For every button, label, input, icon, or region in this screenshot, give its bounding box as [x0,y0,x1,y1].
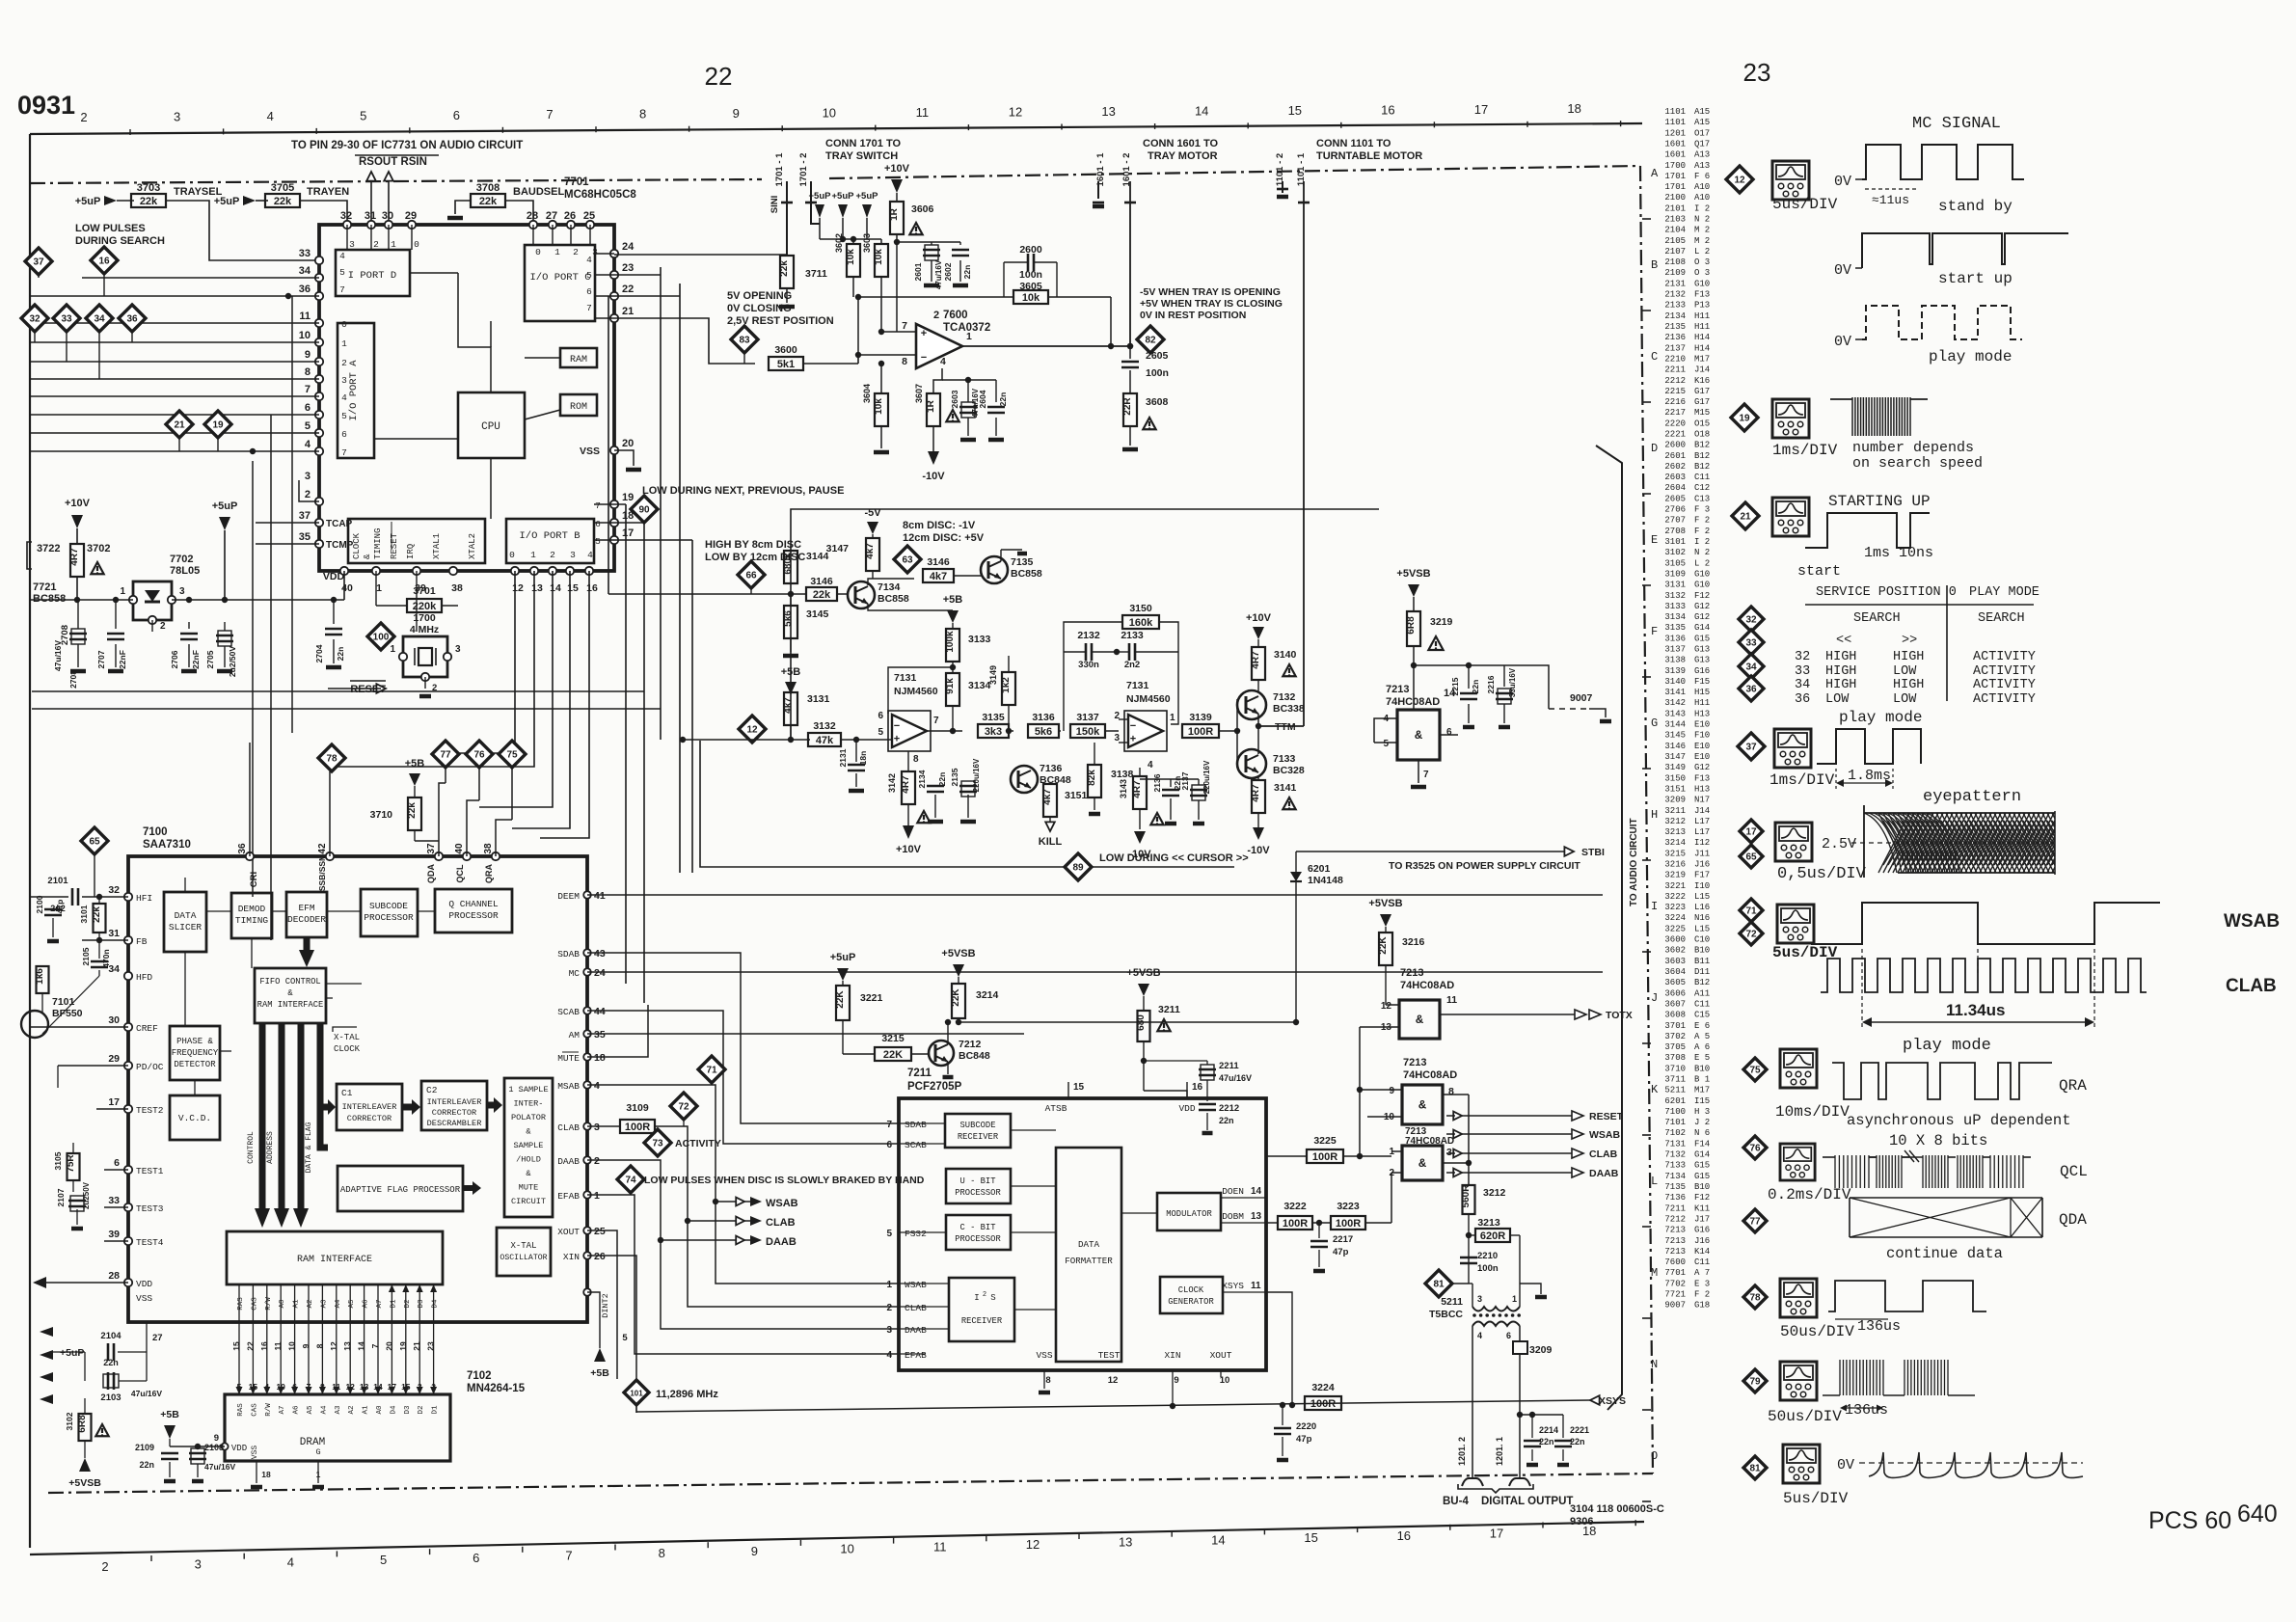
resistor 1k6 [37,966,49,993]
svg-text:0.2ms/DIV: 0.2ms/DIV [1768,1186,1851,1203]
svg-text:L15: L15 [1694,892,1710,902]
diamond 66 [738,561,765,588]
svg-text:+5B: +5B [405,758,425,770]
block 1 SAMPLE INTERPOLATOR [504,1078,553,1217]
svg-text:5: 5 [305,420,311,432]
svg-text:HIGH: HIGH [1825,678,1856,692]
pins 33 34 36 left [315,257,323,264]
svg-text:2214: 2214 [1539,1425,1558,1435]
svg-text:3150: 3150 [1664,773,1686,783]
svg-text:E 5: E 5 [1694,1053,1710,1063]
svg-text:BF550: BF550 [52,1008,83,1019]
svg-text:CLAB: CLAB [557,1122,580,1133]
svg-text:DIGITAL OUTPUT: DIGITAL OUTPUT [1481,1496,1573,1507]
svg-text:6: 6 [886,1140,892,1150]
svg-text:M15: M15 [1694,408,1710,418]
svg-text:78: 78 [1749,1293,1761,1304]
svg-text:7213: 7213 [1664,1226,1686,1235]
svg-text:3105: 3105 [53,1151,63,1170]
svg-text:N17: N17 [1694,796,1710,805]
svg-text:7: 7 [546,107,553,122]
svg-text:33: 33 [1795,664,1810,679]
svg-text:PLAY MODE: PLAY MODE [1969,585,2039,600]
svg-text:4: 4 [587,550,593,560]
svg-text:HIGH BY 8cm DISC: HIGH BY 8cm DISC [705,539,801,551]
svg-text:2104: 2104 [100,1331,122,1341]
svg-text:2: 2 [101,1559,108,1574]
svg-text:3131: 3131 [1664,581,1686,590]
svg-text:12: 12 [1734,176,1745,186]
svg-text:91k: 91k [945,678,956,694]
svg-text:CLAB: CLAB [905,1303,927,1313]
svg-text:71: 71 [706,1066,717,1076]
block Q CHANNEL PROCESSOR [435,889,512,933]
svg-text:3703: 3703 [137,182,160,194]
capacitor 2104 22n [107,1343,110,1361]
svg-text:ATSB: ATSB [1045,1103,1067,1114]
resistor 3209 [1513,1341,1527,1354]
svg-text:22n: 22n [1570,1437,1585,1446]
diamond 12 servo [739,716,766,743]
svg-text:3214: 3214 [1664,838,1686,848]
svg-text:CLOCK: CLOCK [1178,1285,1204,1295]
svg-text:RAM INTERFACE: RAM INTERFACE [297,1255,372,1265]
svg-text:LOW: LOW [1893,692,1917,707]
svg-text:M 2: M 2 [1694,226,1710,235]
svg-text:I PORT D: I PORT D [348,270,396,282]
wire bus verticals [608,296,609,594]
svg-text:+10V: +10V [896,844,922,855]
svg-text:2: 2 [933,310,939,321]
wire XOUT [587,1230,617,1379]
svg-text:+5V WHEN TRAY IS CLOSING: +5V WHEN TRAY IS CLOSING [1140,298,1283,310]
svg-text:4k7: 4k7 [1042,789,1053,805]
svg-text:2137: 2137 [1180,771,1190,790]
svg-text:3104 118 00600S-C: 3104 118 00600S-C [1570,1503,1664,1515]
arrow DAAB mid [661,1239,750,1241]
resistor 3607 1R [927,393,940,426]
svg-text:22K: 22K [1378,936,1389,955]
svg-text:STBI: STBI [1581,847,1605,858]
svg-text:18: 18 [1567,101,1580,116]
svg-text:TIMING: TIMING [373,528,383,559]
svg-text:3711: 3711 [805,268,827,280]
svg-text:10: 10 [840,1542,853,1556]
wire AM [587,1033,1024,1035]
svg-text:3135: 3135 [1664,623,1686,633]
svg-text:34: 34 [299,265,311,277]
svg-text:BC848: BC848 [959,1050,990,1062]
svg-text:2109: 2109 [135,1443,154,1452]
svg-text:73: 73 [652,1139,663,1149]
svg-text:7: 7 [1423,770,1429,780]
svg-text:A5: A5 [307,1405,314,1415]
svg-text:3: 3 [341,375,347,386]
svg-text:A1: A1 [293,1299,301,1309]
diamond 32 [21,305,48,332]
svg-text:/HOLD: /HOLD [516,1155,541,1165]
svg-text:2105: 2105 [81,947,91,965]
memory DRAM block [225,1394,450,1461]
svg-text:BU-4: BU-4 [1443,1496,1469,1507]
svg-text:47u/16V: 47u/16V [934,259,943,289]
resistor 3131 4k7 [784,692,797,725]
svg-text:2101: 2101 [47,876,68,886]
svg-text:3722: 3722 [37,543,60,554]
svg-text:8cm DISC: -1V: 8cm DISC: -1V [903,520,976,531]
svg-text:3: 3 [594,1122,600,1133]
svg-text:23: 23 [426,1341,436,1351]
svg-text:10 X 8 bits: 10 X 8 bits [1889,1132,1987,1149]
svg-text:A7: A7 [279,1405,286,1414]
capacitor 2132 330n [1085,643,1088,661]
svg-text:MSAB: MSAB [557,1081,580,1092]
capacitor 2135 220u/16V [959,785,977,788]
svg-text:2108: 2108 [1664,257,1686,267]
svg-text:10: 10 [823,106,836,121]
svg-text:X-TAL: X-TAL [510,1241,536,1251]
svg-text:7600: 7600 [943,310,968,321]
svg-text:4k7: 4k7 [930,571,947,582]
svg-text:1700: 1700 [1664,161,1686,171]
svg-text:3139: 3139 [1664,666,1686,676]
diode 6201 1N4148 [1290,872,1302,881]
svg-text:79: 79 [1749,1377,1761,1388]
svg-text:C11: C11 [1694,473,1710,482]
svg-text:B12: B12 [1694,441,1710,450]
waveform stand by [1862,145,2024,179]
svg-text:G10: G10 [1694,581,1710,590]
svg-text:7212: 7212 [1664,1215,1686,1225]
diamond 33 [53,305,80,332]
svg-text:29: 29 [405,210,417,222]
svg-text:7101: 7101 [1664,1118,1686,1127]
svg-text:32: 32 [340,210,352,222]
svg-text:0: 0 [535,247,541,257]
svg-text:37: 37 [33,257,44,268]
svg-text:21: 21 [1740,512,1751,523]
svg-text:11: 11 [299,311,311,322]
svg-text:2107: 2107 [1664,247,1686,257]
svg-text:7134: 7134 [1664,1172,1686,1181]
svg-text:FORMATTER: FORMATTER [1065,1256,1113,1266]
svg-text:22k: 22k [407,802,418,819]
svg-text:330n: 330n [1078,660,1099,670]
svg-text:3600: 3600 [1664,935,1686,945]
servo area border [791,509,1379,741]
block I/O PORT A [338,323,374,458]
svg-text:<<: << [1836,634,1851,648]
svg-text:SEARCH: SEARCH [1853,611,1901,626]
svg-text:2: 2 [341,358,347,368]
svg-text:TOTX: TOTX [1606,1010,1633,1021]
svg-text:2601: 2601 [913,262,923,281]
wire port A columns down [252,461,254,897]
svg-text:1ms 10ns: 1ms 10ns [1864,545,1933,561]
svg-text:7213: 7213 [1403,1057,1426,1068]
wire TEST4 stub [104,1240,128,1242]
arrow CLAB mid [688,1220,750,1222]
svg-text:38: 38 [483,843,494,854]
svg-text:WSAB: WSAB [766,1198,798,1209]
svg-text:7: 7 [305,384,311,395]
svg-text:5: 5 [1383,739,1389,749]
svg-text:J: J [1651,991,1658,1005]
svg-text:6: 6 [595,519,601,529]
svg-text:36: 36 [1795,692,1810,707]
wire emitters to 1101-1 [1257,714,1259,726]
svg-text:4R7: 4R7 [1132,780,1143,798]
svg-text:A10: A10 [1694,193,1710,203]
svg-text:3212: 3212 [1664,817,1686,826]
svg-text:22R: 22R [1122,397,1133,416]
wire TRAYSEL to pin 33 [166,201,319,260]
svg-text:1201. 1: 1201. 1 [1495,1437,1504,1466]
svg-text:10k: 10k [1022,292,1040,304]
svg-text:I/O PORT B: I/O PORT B [519,530,580,542]
svg-text:22n: 22n [139,1460,154,1470]
svg-text:CONTROL: CONTROL [247,1131,256,1164]
svg-text:7: 7 [886,1120,892,1130]
svg-text:78: 78 [326,754,338,765]
svg-text:2216: 2216 [1664,397,1686,407]
left supply arrows [40,1327,53,1337]
svg-text:≈11us: ≈11us [1872,193,1909,207]
svg-text:33: 33 [299,248,311,259]
to audio circuit bracket [1596,446,1622,1410]
block X-TAL OSCILLATOR [497,1228,551,1276]
svg-text:27: 27 [152,1333,163,1343]
svg-text:FS32: FS32 [905,1229,927,1239]
svg-text:E: E [1651,533,1658,547]
svg-text:6: 6 [1506,1331,1511,1340]
svg-text:63: 63 [902,555,913,566]
svg-text:MN4264-15: MN4264-15 [467,1383,526,1394]
svg-text:SAMPLE: SAMPLE [514,1141,544,1150]
svg-text:7132: 7132 [1664,1150,1686,1160]
svg-text:3600: 3600 [774,344,797,356]
svg-text:F10: F10 [1694,731,1710,741]
svg-text:3134: 3134 [968,680,991,691]
svg-text:VSS: VSS [580,446,600,457]
svg-text:XOUT: XOUT [557,1227,580,1237]
wire RSIN arrow up [388,178,390,225]
svg-text:43: 43 [594,948,606,960]
capacitor 2137 220u/16V [1190,789,1207,792]
svg-text:9: 9 [305,349,311,361]
svg-text:100n: 100n [1019,269,1042,281]
resistor 3145 5k6 [784,606,797,638]
svg-text:3211: 3211 [1158,1004,1180,1015]
svg-text:2100: 2100 [35,895,44,913]
svg-text:22n: 22n [962,265,972,280]
svg-text:100n: 100n [1477,1263,1499,1274]
svg-text:G10: G10 [1694,279,1710,288]
reset arrow [424,677,426,689]
svg-text:DINT2: DINT2 [601,1293,610,1318]
svg-text:16: 16 [586,582,598,594]
svg-text:MC68HC05C8: MC68HC05C8 [564,189,636,201]
svg-text:ACTIVITY: ACTIVITY [1973,678,2036,692]
waveform QRA [1832,1063,2052,1099]
capacitor 2134 22n [908,776,935,778]
svg-text:+: + [921,328,927,339]
svg-text:3: 3 [592,247,598,257]
svg-text:13: 13 [1251,1211,1262,1222]
op amp output wire [962,345,1111,347]
waveform 136us square [1828,1281,1986,1311]
capacitor 2105 470n [91,960,108,963]
svg-text:36: 36 [1745,685,1757,695]
resistor 3142 4R7 [907,751,909,771]
svg-text:5: 5 [595,536,601,547]
capacitor 2210 100n [1460,1257,1477,1259]
svg-text:CONN 1701 TO: CONN 1701 TO [825,138,901,149]
svg-text:22: 22 [705,62,733,91]
svg-text:2137: 2137 [1664,343,1686,353]
svg-text:8: 8 [659,1546,665,1560]
diamond 74 [617,1166,644,1193]
svg-text:+10V: +10V [65,498,91,509]
capacitor 2100 47p [52,897,54,905]
svg-text:20: 20 [622,438,634,449]
svg-text:3137: 3137 [1076,712,1099,723]
svg-text:C13: C13 [1694,494,1710,503]
resistor 3141 4R7 -10V [1252,780,1265,813]
svg-text:18: 18 [594,1052,606,1064]
svg-text:22nF: 22nF [191,650,201,669]
wire STBI [1296,851,1567,852]
svg-text:7136: 7136 [1040,763,1063,774]
svg-text:26: 26 [564,210,576,222]
diamond 73 ACTIVITY [644,1129,671,1156]
svg-text:F 2: F 2 [1694,1290,1710,1300]
svg-text:2706: 2706 [170,650,179,668]
svg-text:76: 76 [1749,1144,1761,1154]
svg-text:3139: 3139 [1189,712,1212,723]
svg-text:2132: 2132 [1077,630,1100,641]
svg-text:22n: 22n [336,647,345,662]
diamond 17 scope [1740,820,1763,843]
wire CLAB to 3109 [587,1125,620,1127]
svg-text:PROCESSOR: PROCESSOR [955,1234,1001,1244]
svg-text:LOW DURING NEXT, PREVIOUS, PAU: LOW DURING NEXT, PREVIOUS, PAUSE [642,485,844,497]
svg-text:2605: 2605 [1146,350,1169,362]
thick arrow flag processor [463,1185,473,1191]
svg-text:+5VSB: +5VSB [68,1477,101,1489]
svg-text:77: 77 [440,750,451,761]
block C-BIT PROCESSOR [946,1215,1011,1250]
capacitor 2215 22n [1460,692,1477,695]
svg-text:2103: 2103 [100,1392,121,1403]
svg-text:CLAB: CLAB [1589,1149,1618,1160]
svg-text:2: 2 [573,247,579,257]
svg-text:1101: 1101 [1664,107,1686,117]
svg-text:22n: 22n [1539,1437,1554,1446]
svg-text:2705: 2705 [205,650,215,668]
svg-text:14: 14 [1251,1186,1262,1197]
svg-text:G14: G14 [1694,1150,1710,1160]
svg-text:3705: 3705 [1664,1042,1686,1052]
diamond 75 scope [1743,1058,1767,1081]
svg-text:160k: 160k [1129,617,1153,629]
block ADAPTIVE FLAG PROCESSOR [338,1166,463,1211]
svg-text:100R: 100R [1283,1218,1308,1230]
svg-text:31: 31 [365,210,376,222]
svg-text:WSAB: WSAB [1589,1129,1620,1141]
svg-text:QDA: QDA [2059,1211,2087,1229]
capacitor 2103 47u/16V [107,1372,110,1390]
svg-text:100R: 100R [1336,1218,1361,1230]
svg-text:SAA7310: SAA7310 [143,839,191,851]
svg-text:3141: 3141 [1274,782,1297,794]
svg-text:MC SIGNAL: MC SIGNAL [1912,115,2001,133]
svg-text:ADAPTIVE FLAG PROCESSOR: ADAPTIVE FLAG PROCESSOR [340,1185,461,1195]
svg-text:-10V: -10V [922,471,945,482]
svg-text:22nF: 22nF [118,650,127,669]
svg-text:16: 16 [1381,102,1394,117]
svg-text:2604: 2604 [1664,483,1686,493]
svg-text:3151: 3151 [1664,785,1686,795]
svg-text:5V OPENING: 5V OPENING [727,290,792,302]
svg-text:17: 17 [1490,1527,1503,1541]
svg-text:3138: 3138 [1111,769,1134,780]
svg-text:2u250V: 2u250V [82,1181,91,1209]
block C1 INTERLEAVER CORRECTOR [337,1084,402,1130]
svg-text:I: I [974,1293,979,1303]
svg-text:4R7: 4R7 [901,775,911,794]
svg-text:3223: 3223 [1337,1201,1360,1212]
svg-text:11: 11 [933,1539,947,1554]
svg-text:I15: I15 [1694,1096,1710,1106]
svg-text:3216: 3216 [1664,860,1686,870]
svg-text:CPU: CPU [481,421,500,433]
svg-text:1R: 1R [926,399,936,413]
svg-text:0V CLOSING: 0V CLOSING [727,303,792,314]
wire supply rows to servo [32,690,644,692]
svg-text:J11: J11 [1694,849,1710,858]
svg-text:CLAB: CLAB [2226,976,2277,996]
svg-text:1R: 1R [889,207,900,221]
svg-text:+5VSB: +5VSB [1368,898,1402,909]
svg-text:A5: A5 [348,1299,356,1309]
svg-text:32: 32 [108,884,120,896]
svg-text:1: 1 [391,239,396,250]
svg-text:16: 16 [1397,1528,1411,1543]
svg-text:76: 76 [473,750,485,761]
svg-text:ROM: ROM [570,402,587,413]
svg-text:100R: 100R [1312,1151,1337,1163]
svg-text:4k7: 4k7 [783,697,794,714]
svg-text:18n: 18n [858,751,868,766]
pin VSS 20 [610,446,618,454]
svg-text:14: 14 [550,582,561,594]
svg-text:XIN: XIN [1164,1350,1180,1361]
svg-text:DOEN: DOEN [1222,1186,1244,1197]
svg-text:9306: 9306 [1570,1516,1593,1527]
svg-text:9: 9 [751,1544,758,1558]
svg-text:B12: B12 [1694,462,1710,472]
diamond 77 [432,741,459,768]
svg-text:TIMING: TIMING [235,915,269,926]
svg-text:1601: 1601 [1664,150,1686,160]
svg-text:G16: G16 [1694,1226,1710,1235]
svg-text:H13: H13 [1694,709,1710,718]
block CPU [458,392,525,458]
svg-text:2604: 2604 [978,390,987,408]
svg-text:A13: A13 [1694,150,1710,160]
svg-text:25: 25 [583,210,595,222]
